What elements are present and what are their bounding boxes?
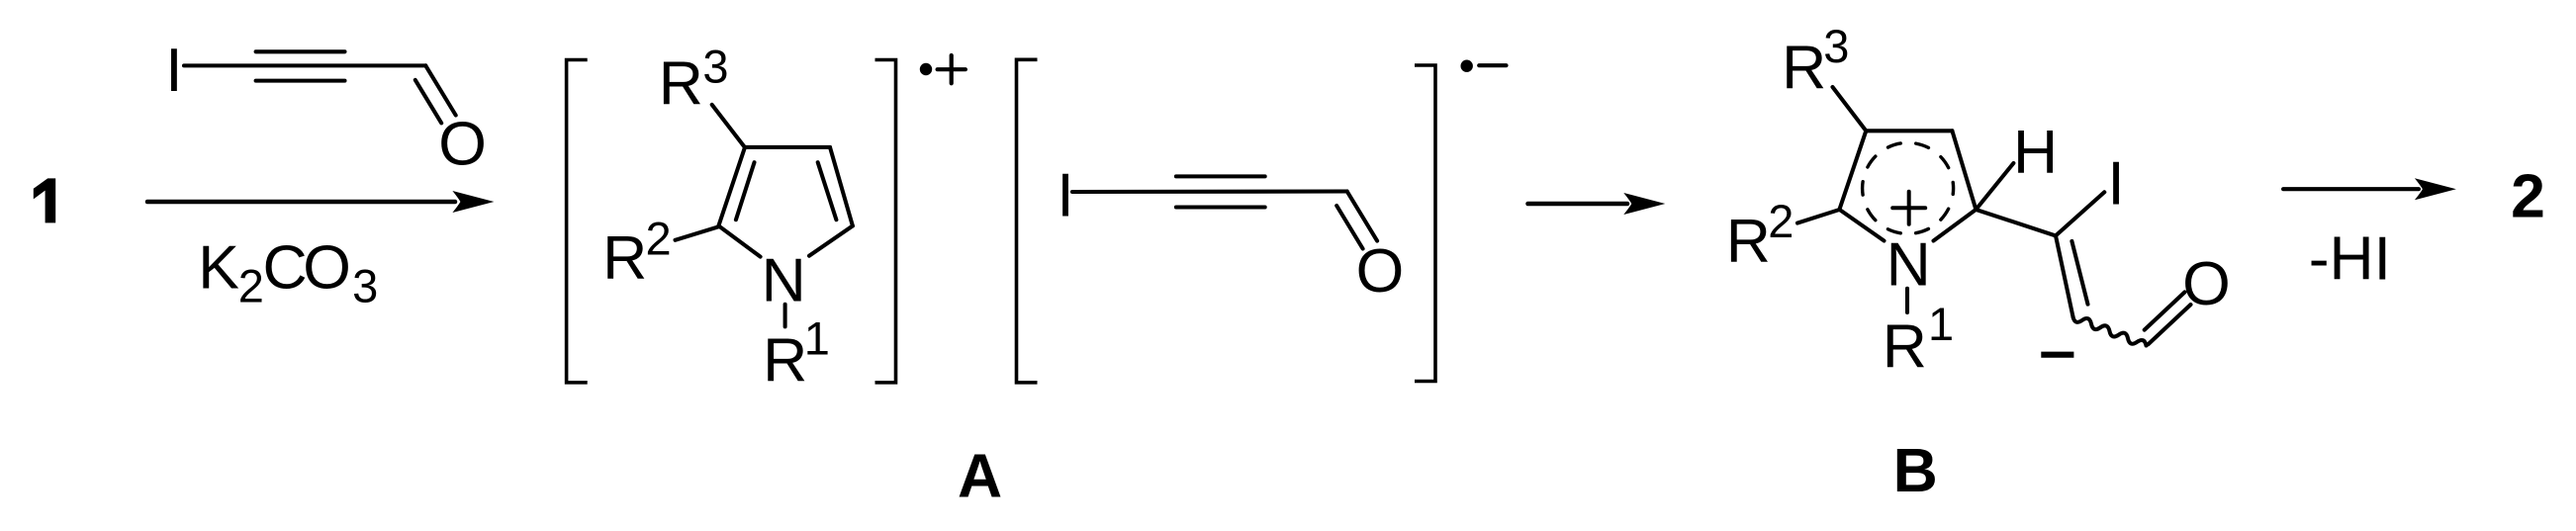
svg-text:N: N: [1886, 229, 1931, 299]
svg-text:1: 1: [804, 312, 830, 365]
svg-text:3: 3: [352, 260, 378, 312]
svg-text:3: 3: [1823, 20, 1849, 72]
svg-text:B: B: [1893, 436, 1938, 505]
svg-text:R: R: [763, 326, 807, 396]
svg-text:R: R: [1782, 34, 1826, 103]
svg-text:C: C: [263, 233, 308, 303]
svg-text:O: O: [1356, 236, 1405, 306]
svg-text:1: 1: [1928, 298, 1954, 350]
svg-text:A: A: [958, 442, 1002, 511]
svg-text:2: 2: [238, 260, 264, 312]
svg-text:O: O: [303, 233, 351, 303]
svg-text:R: R: [1726, 207, 1771, 276]
svg-text:2: 2: [1768, 195, 1794, 247]
svg-text:I: I: [2107, 149, 2124, 219]
svg-text:2: 2: [2511, 161, 2545, 230]
svg-text:O: O: [2182, 249, 2231, 318]
svg-text:3: 3: [702, 41, 728, 93]
svg-text:-HI: -HI: [2309, 224, 2391, 294]
svg-text:O: O: [438, 109, 487, 178]
svg-text:N: N: [762, 245, 806, 314]
svg-text:K: K: [198, 233, 239, 303]
svg-text:R: R: [1883, 311, 1927, 381]
svg-text:I: I: [165, 36, 182, 105]
svg-text:R: R: [659, 49, 703, 119]
svg-text:2: 2: [646, 212, 672, 264]
svg-text:R: R: [602, 223, 647, 293]
svg-text:H: H: [2013, 118, 2058, 187]
svg-text:I: I: [1057, 160, 1073, 229]
